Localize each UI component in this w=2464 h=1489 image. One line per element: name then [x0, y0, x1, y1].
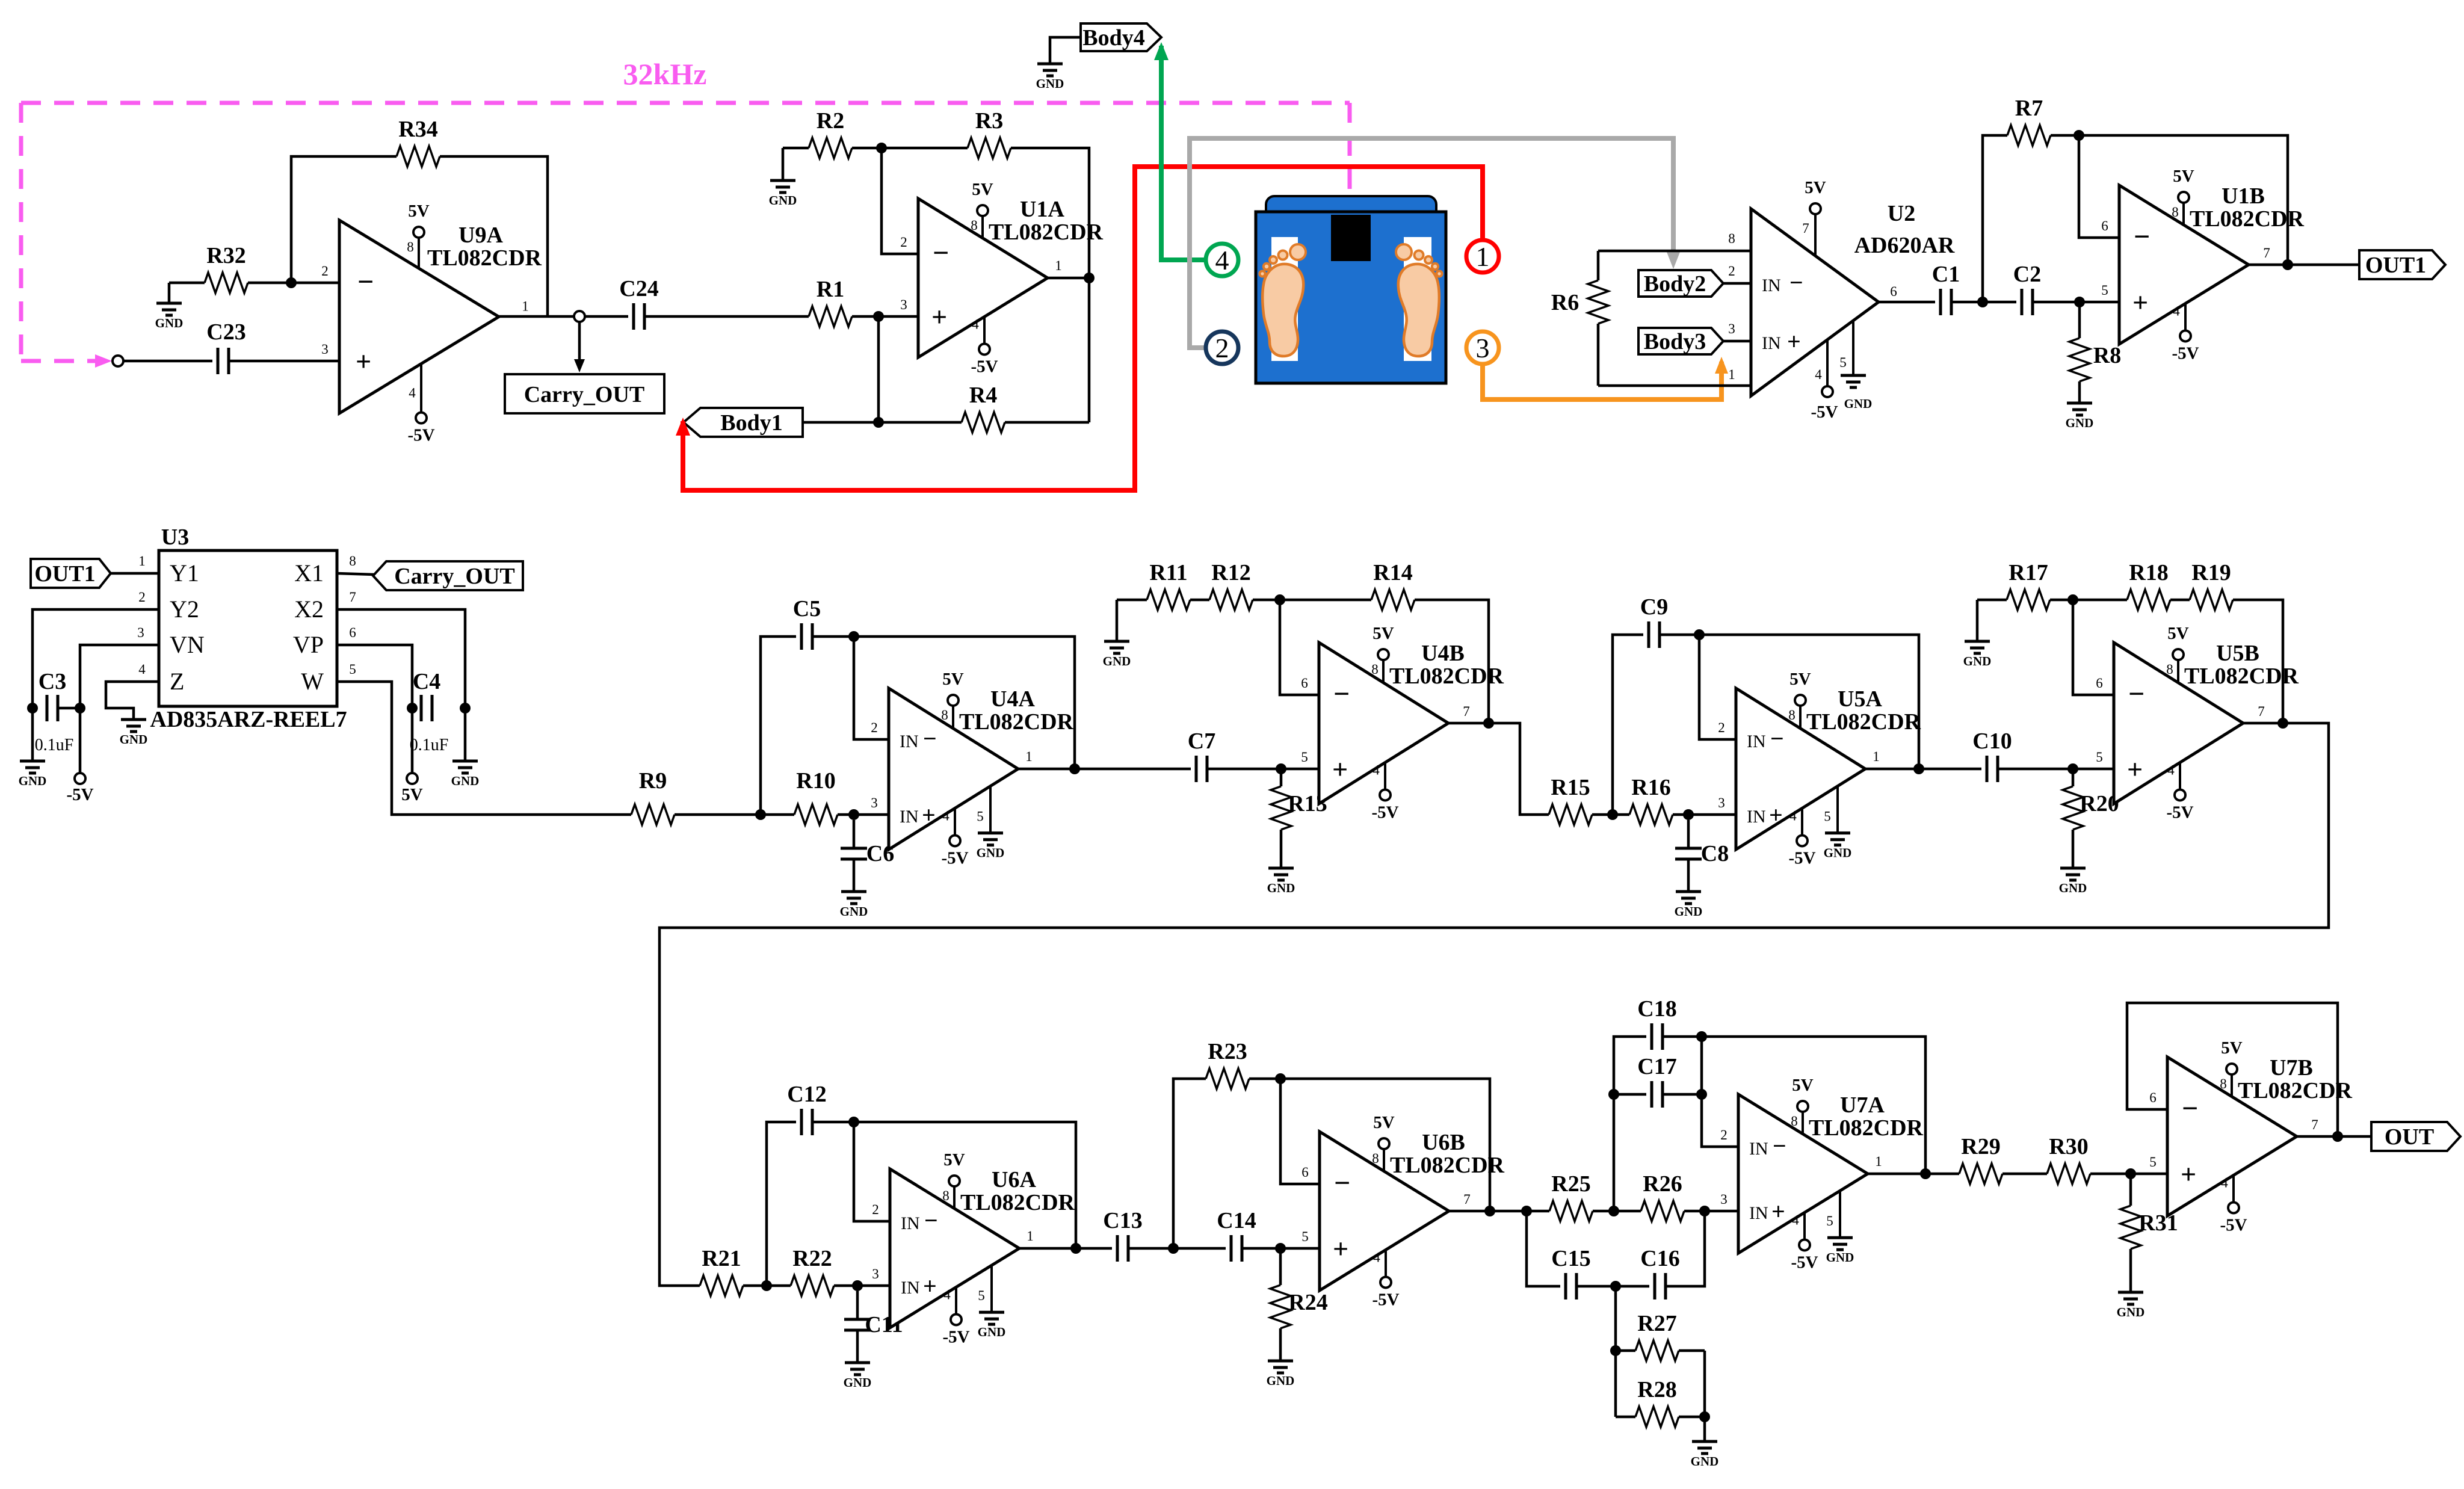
svg-text:+: +	[1787, 328, 1801, 355]
svg-text:Body3: Body3	[1644, 329, 1706, 354]
svg-text:+: +	[1769, 801, 1783, 828]
junction U6A out/feedback	[1070, 1243, 1081, 1254]
wire R25 to R26	[1593, 1210, 1641, 1213]
svg-text:3: 3	[871, 795, 878, 810]
capacitor C12	[787, 1082, 826, 1135]
capacitor C8	[1675, 820, 1729, 892]
wire grey electrode 2 arrowhead	[1667, 252, 1680, 269]
junction R21/R22/C12	[761, 1280, 772, 1291]
svg-text:Y2: Y2	[170, 596, 199, 623]
wire R3 to output net	[1011, 148, 1089, 422]
junction C12/pin2	[848, 1117, 859, 1127]
svg-text:5V: 5V	[401, 785, 423, 804]
capacitor C17	[1637, 1054, 1676, 1108]
junction R1/pin3	[873, 311, 884, 322]
wire input to C23	[123, 360, 212, 363]
svg-text:R17: R17	[2009, 560, 2048, 585]
wire U1A output	[1048, 277, 1089, 280]
wire R14 to U4B output	[1415, 600, 1489, 723]
wire U2 output	[1879, 301, 1935, 304]
svg-text:5: 5	[1301, 1229, 1309, 1244]
svg-text:4: 4	[2167, 762, 2175, 777]
svg-text:U7B: U7B	[2270, 1055, 2313, 1081]
svg-text:R18: R18	[2129, 560, 2168, 585]
wire Body1 to R4 net	[803, 421, 878, 424]
resistor R30	[2047, 1134, 2090, 1184]
wire 32kHz net right drop	[1348, 103, 1352, 200]
wire red electrode 1	[683, 167, 1483, 490]
wire U1B output to OUT1	[2249, 264, 2359, 267]
wire R10 to U4A pin3	[854, 813, 889, 816]
capacitor C5	[793, 596, 821, 650]
wire C13 to C14	[1128, 1247, 1226, 1250]
svg-text:4: 4	[2221, 1175, 2228, 1190]
wire U7B feedback loop	[2127, 1003, 2338, 1136]
svg-text:8: 8	[942, 1188, 949, 1203]
svg-text:-5V: -5V	[407, 426, 434, 445]
junction C17 left	[1608, 1089, 1619, 1100]
svg-text:+: +	[2127, 754, 2143, 785]
svg-text:IN: IN	[901, 1278, 920, 1298]
svg-text:-5V: -5V	[2220, 1215, 2247, 1235]
svg-text:U3: U3	[161, 525, 189, 550]
svg-text:R7: R7	[2015, 96, 2043, 121]
resistor R28	[1616, 1377, 1705, 1427]
svg-text:+: +	[923, 1272, 937, 1299]
svg-text:7: 7	[1802, 221, 1809, 236]
op-amp U4A	[871, 670, 1073, 868]
wire to U4A pin2	[854, 637, 889, 739]
svg-text:5: 5	[1824, 809, 1831, 824]
svg-text:VN: VN	[170, 631, 205, 658]
wire green electrode 4	[1161, 46, 1204, 260]
ground	[2066, 403, 2094, 430]
wire R6 top to U2 pin8	[1598, 250, 1751, 253]
svg-text:GND: GND	[155, 316, 184, 330]
left foot	[1262, 264, 1303, 356]
svg-text:5: 5	[1839, 355, 1847, 370]
svg-text:5V: 5V	[2167, 624, 2189, 643]
svg-text:TL082CDR: TL082CDR	[1390, 1153, 1505, 1178]
resistor R17	[2007, 560, 2050, 610]
wire R2 gnd drop	[782, 148, 785, 180]
svg-text:R6: R6	[1551, 290, 1579, 315]
wire U5B output	[2243, 722, 2283, 725]
body scale top tab	[1266, 196, 1436, 223]
svg-text:GND: GND	[978, 1325, 1006, 1339]
svg-text:1: 1	[1728, 367, 1735, 382]
left foot toe	[1264, 264, 1270, 270]
resistor R15	[1549, 775, 1613, 825]
svg-text:GND: GND	[1036, 76, 1064, 91]
svg-text:IN: IN	[1749, 1139, 1768, 1159]
svg-text:5V: 5V	[1805, 178, 1826, 197]
svg-text:Carry_OUT: Carry_OUT	[394, 564, 515, 589]
wire U7B output to OUT	[2297, 1135, 2371, 1138]
wire R26 to U7A pin3	[1684, 1210, 1738, 1213]
capacitor C7	[1188, 729, 1215, 782]
svg-text:GND: GND	[1691, 1454, 1719, 1469]
svg-text:C14: C14	[1217, 1208, 1256, 1233]
svg-text:GND: GND	[2066, 416, 2094, 430]
capacitor C24	[619, 276, 658, 330]
wire C1 to C2	[1951, 301, 2016, 304]
svg-text:TL082CDR: TL082CDR	[2238, 1078, 2353, 1103]
resistor R32	[205, 243, 291, 293]
svg-text:3: 3	[1476, 333, 1490, 363]
svg-text:5: 5	[2101, 283, 2108, 298]
ground	[19, 761, 47, 788]
svg-text:TL082CDR: TL082CDR	[2190, 206, 2305, 232]
wire R29 to R30	[2002, 1173, 2047, 1176]
wire R32 to ground	[168, 283, 171, 303]
capacitor C6	[841, 820, 894, 892]
svg-text:R24: R24	[1288, 1290, 1327, 1315]
wire C18 right	[1663, 1035, 1702, 1038]
junction R32/feedback	[286, 277, 297, 288]
svg-text:4: 4	[972, 316, 979, 331]
svg-text:1: 1	[1055, 258, 1062, 273]
wire orange electrode 3	[1483, 362, 1721, 399]
wire GND to R11	[1117, 599, 1147, 602]
svg-text:R10: R10	[796, 768, 835, 794]
svg-text:X2: X2	[294, 596, 324, 623]
resistor R21	[700, 1246, 743, 1296]
wire U3 Y2 to C3	[32, 609, 159, 761]
wire to U6A pin2	[854, 1122, 890, 1221]
wire GND to R17	[1977, 599, 2007, 602]
node Carry_OUT label box	[505, 374, 664, 413]
svg-text:C8: C8	[1701, 841, 1729, 866]
ground	[155, 303, 184, 330]
svg-text:Body2: Body2	[1644, 271, 1706, 297]
svg-text:7: 7	[2311, 1117, 2318, 1132]
wire U6B output	[1449, 1210, 1549, 1213]
op-amp U6A	[872, 1150, 1075, 1346]
svg-text:GND: GND	[451, 774, 480, 788]
resistor R3	[968, 108, 1011, 158]
resistor R18	[2127, 560, 2170, 610]
svg-text:C24: C24	[619, 276, 658, 301]
svg-text:C3: C3	[39, 669, 66, 694]
wire Body3 to U2 IN+	[1723, 340, 1751, 343]
svg-text:5: 5	[977, 809, 984, 824]
svg-text:R23: R23	[1208, 1039, 1247, 1064]
resistor R9	[631, 768, 761, 825]
svg-text:-5V: -5V	[2166, 803, 2193, 822]
svg-text:R29: R29	[1961, 1134, 2000, 1159]
right foot toe	[1415, 251, 1424, 260]
wire R2 to R3	[852, 147, 968, 150]
svg-text:4: 4	[1815, 367, 1822, 382]
svg-text:U7A: U7A	[1840, 1093, 1885, 1118]
svg-text:-5V: -5V	[971, 357, 998, 376]
svg-text:TL082CDR: TL082CDR	[427, 245, 542, 271]
svg-text:U9A: U9A	[459, 223, 503, 248]
svg-text:1: 1	[1873, 749, 1880, 764]
svg-text:8: 8	[1791, 1114, 1798, 1129]
svg-text:6: 6	[2101, 218, 2108, 233]
junction R12/R14/pin6	[1274, 594, 1285, 605]
svg-text:OUT1: OUT1	[2365, 253, 2426, 278]
wire R6 top lead	[1597, 251, 1600, 280]
svg-text:6: 6	[1301, 1165, 1309, 1180]
svg-text:Body1: Body1	[720, 410, 782, 436]
junction R7/pin6	[2073, 130, 2084, 141]
wire Carry_OUT arrowhead	[574, 359, 585, 372]
node 3 terminal	[1466, 331, 1499, 364]
svg-text:1: 1	[1025, 749, 1033, 764]
junction C15 branch	[1521, 1206, 1532, 1216]
node Carry_OUT flag	[373, 561, 523, 590]
wire orange electrode 3 arrowhead	[1715, 357, 1728, 374]
wire R6 bottom lead	[1597, 324, 1600, 386]
node 4 terminal	[1206, 244, 1238, 276]
wire R30 to U7B pin5	[2090, 1173, 2167, 1176]
junction U4B out/feedback	[1483, 718, 1494, 729]
junction C17/pin2	[1696, 1089, 1707, 1100]
junction C18/feedback	[1696, 1031, 1707, 1042]
ground	[2117, 1292, 2145, 1319]
wire U9A output	[499, 315, 628, 318]
wire R12 to R14	[1253, 599, 1371, 602]
svg-text:R27: R27	[1637, 1311, 1676, 1336]
svg-text:R11: R11	[1149, 560, 1187, 585]
svg-text:GND: GND	[19, 774, 47, 788]
wire to U1B pin6	[2079, 135, 2119, 238]
svg-text:6: 6	[2096, 676, 2103, 691]
svg-text:7: 7	[2258, 704, 2265, 719]
svg-text:AD620AR: AD620AR	[1854, 233, 1955, 258]
junction C13/C14/R23	[1168, 1243, 1179, 1254]
resistor R12	[1209, 560, 1253, 610]
op-amp U5B	[2096, 624, 2299, 822]
junction C6	[848, 809, 859, 820]
svg-text:3: 3	[1720, 1192, 1728, 1207]
svg-text:−: −	[2128, 678, 2144, 710]
ground	[1267, 1361, 1295, 1388]
wire R31 to ground	[2129, 1249, 2132, 1292]
svg-text:8: 8	[941, 708, 948, 723]
svg-text:OUT1: OUT1	[34, 561, 95, 587]
svg-text:GND: GND	[1963, 654, 1992, 668]
svg-text:3: 3	[1728, 321, 1735, 336]
svg-text:2: 2	[1718, 720, 1725, 735]
svg-text:GND: GND	[1844, 396, 1873, 411]
junction C9/pin2	[1694, 629, 1705, 640]
svg-text:-5V: -5V	[1788, 848, 1815, 868]
svg-text:7: 7	[2263, 245, 2270, 260]
junction R17/R18/pin6	[2067, 594, 2078, 605]
svg-text:8: 8	[349, 553, 356, 569]
svg-text:R25: R25	[1551, 1171, 1590, 1197]
svg-text:R26: R26	[1643, 1171, 1682, 1197]
svg-text:−: −	[924, 1207, 938, 1234]
junction C1/R7	[1977, 297, 1988, 307]
wire R19 to U5B output	[2233, 600, 2283, 723]
svg-text:−: −	[1770, 725, 1784, 752]
svg-text:GND: GND	[1824, 846, 1852, 860]
resistor R4	[878, 383, 1089, 433]
resistor R20	[2063, 769, 2119, 868]
svg-text:+: +	[1332, 754, 1348, 785]
body scale display	[1331, 215, 1371, 261]
svg-text:2: 2	[900, 235, 907, 250]
resistor R19	[2190, 560, 2233, 610]
junction C3 right	[75, 703, 85, 714]
wire C7 to U4B pin5	[1207, 768, 1319, 771]
resistor R16	[1613, 775, 1688, 825]
svg-text:IN: IN	[1747, 807, 1766, 827]
junction C7/R13	[1276, 763, 1286, 774]
svg-text:1: 1	[138, 553, 146, 569]
node 1 terminal	[1466, 240, 1499, 273]
right foot toe	[1432, 264, 1438, 270]
junction U6B out/feedback	[1484, 1206, 1495, 1216]
svg-text:32kHz: 32kHz	[623, 57, 707, 91]
svg-text:4: 4	[943, 1287, 951, 1302]
junction C15/C16/R27	[1610, 1281, 1621, 1292]
junction R15/R16/C9	[1607, 809, 1618, 820]
node OUT flag	[2371, 1122, 2460, 1151]
svg-text:+: +	[931, 301, 947, 332]
ground	[844, 1363, 872, 1390]
svg-text:GND: GND	[1103, 654, 1131, 668]
svg-text:R14: R14	[1373, 560, 1412, 585]
svg-text:U1B: U1B	[2222, 183, 2265, 209]
svg-text:IN: IN	[900, 732, 919, 751]
svg-text:-5V: -5V	[942, 1327, 969, 1346]
svg-text:4: 4	[138, 662, 146, 677]
right foot toe	[1396, 244, 1412, 260]
op-amp U7A	[1720, 1076, 1923, 1272]
svg-text:-5V: -5V	[1371, 803, 1398, 822]
wire to U1A pin2	[882, 148, 918, 254]
svg-text:R16: R16	[1631, 775, 1670, 800]
wire C2 to U1B pin5	[2033, 301, 2119, 304]
svg-text:R15: R15	[1551, 775, 1590, 800]
wire 32kHz net left	[19, 103, 23, 361]
wire feedback up to R34	[291, 156, 397, 283]
svg-text:TL082CDR: TL082CDR	[1809, 1115, 1924, 1141]
svg-text:GND: GND	[1267, 881, 1295, 895]
left foot toe	[1259, 271, 1265, 276]
wire R18 to R19	[2170, 599, 2190, 602]
junction C2/R8	[2074, 297, 2085, 307]
capacitor C10	[1972, 729, 2012, 782]
node	[113, 356, 123, 366]
svg-text:TL082CDR: TL082CDR	[960, 1190, 1075, 1215]
svg-text:R32: R32	[206, 243, 245, 268]
svg-text:IN: IN	[1762, 276, 1781, 295]
svg-text:GND: GND	[977, 846, 1005, 860]
wire U4B out down to R15	[1489, 723, 1549, 815]
node OUT1 flag	[31, 559, 111, 588]
wire U3 VN down	[80, 645, 159, 773]
capacitor C2	[2013, 262, 2041, 315]
wire R6 bottom to U2 pin1	[1598, 384, 1751, 387]
wire U3 X2 down to C4	[337, 609, 465, 761]
svg-text:TL082CDR: TL082CDR	[1389, 664, 1504, 689]
wire R28 to ground	[1703, 1417, 1706, 1441]
svg-text:IN: IN	[1762, 333, 1781, 353]
wire red electrode 1 arrowhead	[676, 418, 690, 436]
ground	[1963, 641, 1992, 668]
svg-text:+: +	[356, 346, 371, 377]
wire to Carry_OUT	[578, 322, 581, 364]
svg-text:3: 3	[872, 1266, 879, 1281]
svg-text:−: −	[357, 266, 374, 298]
wire C1 junction up to R7	[1983, 135, 2007, 302]
svg-text:−: −	[2182, 1093, 2198, 1124]
svg-text:6: 6	[2149, 1090, 2157, 1105]
svg-text:-5V: -5V	[1811, 402, 1838, 422]
svg-text:OUT: OUT	[2385, 1124, 2434, 1150]
svg-text:7: 7	[349, 590, 356, 605]
svg-text:W: W	[301, 668, 324, 695]
wire 32kHz net arrow segment	[21, 359, 101, 363]
svg-text:Body4: Body4	[1082, 25, 1144, 51]
junction R28/ground	[1699, 1411, 1710, 1422]
svg-text:R21: R21	[702, 1246, 741, 1271]
capacitor C3	[39, 669, 66, 721]
svg-text:5V: 5V	[408, 202, 430, 221]
svg-text:0.1uF: 0.1uF	[410, 736, 449, 754]
svg-text:C18: C18	[1637, 996, 1676, 1022]
svg-text:R28: R28	[1637, 1377, 1676, 1402]
resistor R6	[1551, 280, 1608, 324]
wire to R8	[2078, 302, 2081, 338]
ground	[1675, 892, 1703, 919]
wire C24 to R1	[644, 315, 809, 318]
svg-text:-5V: -5V	[2172, 344, 2199, 363]
svg-text:8: 8	[2166, 662, 2173, 677]
svg-text:IN: IN	[1747, 732, 1766, 751]
resistor R8	[2069, 338, 2121, 381]
op-amp U5A	[1718, 670, 1921, 868]
svg-text:U6B: U6B	[1422, 1130, 1465, 1155]
wire R17 gnd drop	[1976, 600, 1979, 641]
svg-text:C9: C9	[1640, 594, 1668, 620]
svg-text:-5V: -5V	[66, 785, 93, 804]
wire up to C18	[1614, 1037, 1646, 1211]
wire U6A output	[1019, 1247, 1112, 1250]
junction R9/R10/C5	[755, 809, 766, 820]
wire R17 to R18	[2050, 599, 2127, 602]
right foot	[1398, 264, 1439, 356]
svg-text:5V: 5V	[943, 1150, 965, 1170]
wire C3 right lead	[58, 707, 80, 710]
ground	[840, 892, 868, 919]
svg-text:1: 1	[1027, 1229, 1034, 1244]
svg-text:−: −	[1773, 1132, 1786, 1159]
svg-text:U4A: U4A	[990, 686, 1035, 712]
power -5V	[66, 773, 93, 804]
svg-text:IN: IN	[901, 1213, 920, 1233]
body scale left electrode strip	[1271, 237, 1298, 361]
svg-text:3: 3	[1718, 795, 1725, 810]
wire U3 VP down to C4	[337, 645, 412, 773]
wire C16 up to IN+ node	[1666, 1211, 1705, 1286]
svg-text:U6A: U6A	[992, 1167, 1036, 1192]
wire C5 to junction	[812, 635, 854, 638]
svg-text:5V: 5V	[972, 180, 993, 199]
wire GND to R2	[783, 147, 809, 150]
junction C8	[1683, 809, 1694, 820]
svg-text:R3: R3	[975, 108, 1003, 134]
svg-text:+: +	[1771, 1198, 1785, 1225]
junction U5B out/feedback	[2277, 718, 2288, 729]
